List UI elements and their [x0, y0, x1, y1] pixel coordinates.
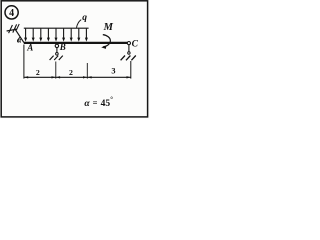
- distributed load arrow 4: [47, 29, 50, 42]
- dimension value 2 (second span): [69, 68, 73, 77]
- support hatch 3 at C: [131, 56, 135, 61]
- support hinge circle at C: [127, 42, 130, 45]
- distributed load arrow 7: [70, 29, 73, 42]
- svg-text:M: M: [103, 22, 114, 33]
- support hatch 2 at C: [126, 56, 130, 61]
- extension line at 2m tick: [55, 62, 57, 79]
- support rod at A: [15, 29, 24, 43]
- dimension arrow seg1 right: [52, 76, 56, 78]
- support hatch 3 at B: [59, 56, 63, 60]
- svg-text:C: C: [132, 40, 139, 50]
- dimension arrow seg2 right: [83, 76, 87, 78]
- svg-text:=: =: [93, 97, 98, 107]
- beam AC: [24, 42, 128, 44]
- moment label M: [103, 22, 114, 33]
- support hatch 1 at B: [50, 56, 54, 60]
- dimension value 2 (first span): [36, 68, 40, 77]
- extension line at 4m tick: [86, 63, 88, 79]
- dimension arrow seg3 right: [127, 76, 131, 78]
- distributed load top line: [24, 27, 89, 29]
- distributed load arrow 3: [39, 29, 42, 42]
- node A label: [26, 43, 33, 53]
- task number circle 4: [5, 6, 18, 19]
- angle alpha label: [17, 34, 22, 44]
- svg-text:q: q: [82, 13, 87, 23]
- distributed load arrow 5: [55, 29, 58, 42]
- support link at C: [128, 45, 130, 53]
- distributed load arrow 8: [77, 29, 80, 42]
- svg-text:2: 2: [36, 68, 40, 77]
- support ground line at A: [7, 29, 17, 31]
- distributed load arrow 6: [62, 29, 65, 42]
- support hinge circle at B: [55, 44, 58, 47]
- support hatch 1 at C: [121, 56, 125, 61]
- svg-text:α: α: [17, 34, 22, 44]
- support hatch 1 at A: [9, 25, 13, 33]
- distributed load arrow 1: [24, 29, 27, 42]
- svg-text:°: °: [110, 96, 113, 104]
- dimension arrow seg1 left: [24, 76, 28, 78]
- svg-text:4: 4: [9, 8, 14, 19]
- svg-text:45: 45: [101, 99, 111, 109]
- node C label: [132, 40, 139, 50]
- support lower hinge at B: [56, 53, 59, 56]
- angle alpha arc at A: [18, 37, 20, 42]
- border frame: [1, 1, 147, 117]
- support link at B: [56, 48, 58, 53]
- support hatch 2 at A: [13, 24, 17, 32]
- dimension line: [24, 76, 131, 78]
- node B label: [59, 42, 66, 52]
- svg-text:B: B: [59, 42, 66, 52]
- background: [0, 0, 150, 119]
- support hatch 2 at B: [54, 56, 58, 60]
- dimension arrow seg3 left: [88, 76, 92, 78]
- extension line at A: [23, 45, 25, 79]
- support lower hinge at C: [128, 52, 130, 54]
- svg-text:α: α: [84, 99, 90, 109]
- svg-text:2: 2: [69, 68, 73, 77]
- support hatch 3 at A: [16, 24, 19, 30]
- svg-text:3: 3: [111, 67, 115, 76]
- load label q: [77, 13, 88, 28]
- svg-text:A: A: [26, 43, 33, 53]
- dimension arrow seg2 left: [56, 76, 60, 78]
- alpha equals 45 degrees text: [84, 96, 113, 110]
- distributed load arrow 9: [85, 29, 88, 42]
- extension line at C: [130, 61, 132, 79]
- moment arc with arrowhead: [101, 35, 110, 49]
- distributed load arrow 2: [32, 29, 35, 42]
- dimension value 3 (third span): [111, 67, 115, 76]
